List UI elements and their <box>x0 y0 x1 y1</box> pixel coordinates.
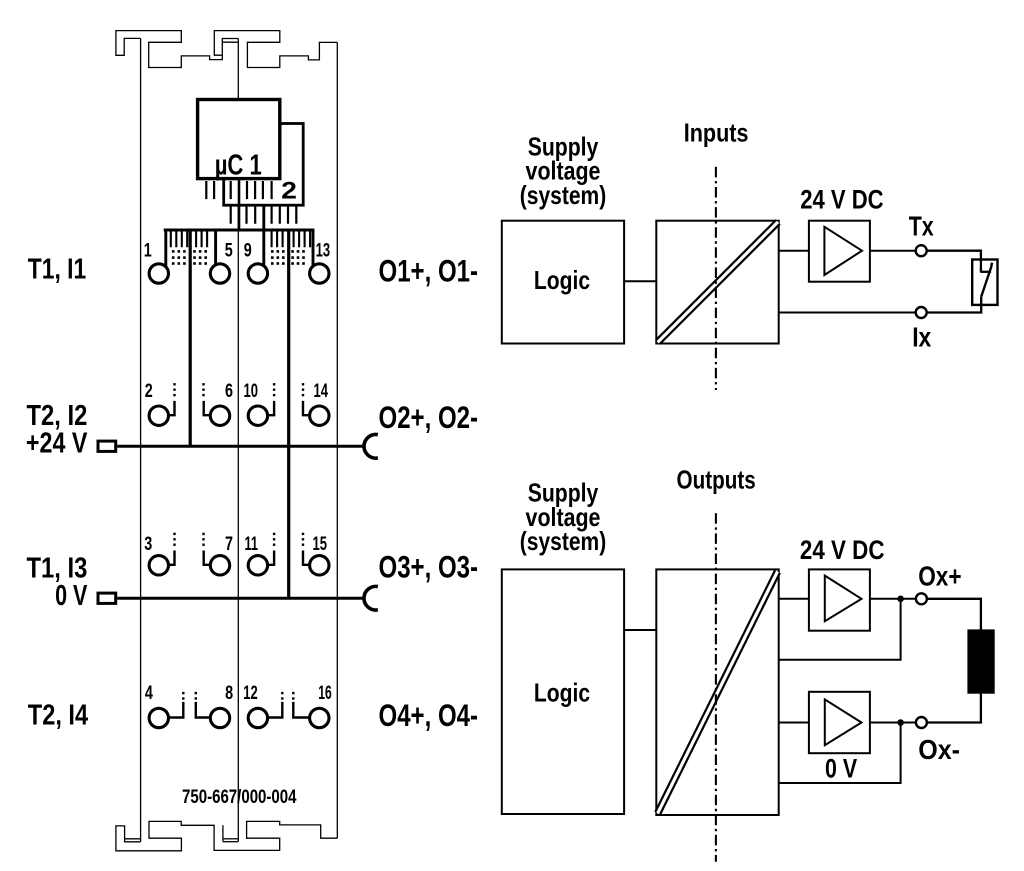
terminal 10 hook wire <box>268 401 275 415</box>
wire isolator to high-side driver <box>778 598 809 600</box>
bottom-center foot channel wall <box>222 825 224 841</box>
svg-text:O1+, O1-: O1+, O1- <box>379 253 479 289</box>
svg-text:O2+, O2-: O2+, O2- <box>379 399 479 435</box>
module left edge wire <box>140 38 142 841</box>
U1 pins row <box>206 181 271 199</box>
logic block U2 <box>502 221 624 344</box>
low-side driver block <box>809 692 870 753</box>
row3 dotted risers <box>173 533 304 546</box>
svg-text:O3+, O3-: O3+, O3- <box>379 549 479 585</box>
terminal 7 hook wire <box>204 551 210 565</box>
microcontroller U1 box <box>198 100 280 179</box>
wire Ox- feedback to isolator <box>778 723 901 784</box>
svg-text:4: 4 <box>145 682 153 704</box>
wire bus to +24V rail (thick) <box>189 230 192 446</box>
terminal 14 hook wire <box>303 401 309 415</box>
terminal 7 <box>210 556 229 575</box>
svg-text:2: 2 <box>145 380 153 402</box>
terminal 1 <box>149 264 168 283</box>
terminal 12 hook wire <box>268 702 283 718</box>
+24V rail socket arc <box>364 435 378 459</box>
svg-text:Ox-: Ox- <box>918 734 960 765</box>
terminal 15 <box>310 556 329 575</box>
terminal 4 <box>149 708 168 727</box>
IC block 2 (behind) <box>224 124 304 206</box>
terminal 2 <box>149 406 168 425</box>
svg-text:24 V DC: 24 V DC <box>800 184 883 214</box>
svg-text:2: 2 <box>281 178 297 205</box>
terminal 3 hook wire <box>168 551 174 565</box>
comb teeth group A <box>171 231 207 247</box>
isolation boundary dash-dot line (outputs) <box>715 513 717 862</box>
isolation boundary dash-dot line (inputs) <box>715 167 717 390</box>
terminal 16 hook wire <box>293 702 309 718</box>
svg-text:10: 10 <box>244 380 259 402</box>
thermistor sensor box <box>972 260 997 305</box>
svg-text:1: 1 <box>144 240 152 262</box>
wire bus drop to terminal 13 <box>312 230 315 267</box>
module right edge wire <box>336 42 338 838</box>
terminal 8 hook wire <box>196 702 210 718</box>
IC2 pins row <box>231 205 297 224</box>
row2 dotted risers <box>173 383 304 396</box>
svg-text:Logic: Logic <box>534 678 590 708</box>
svg-text:0 V: 0 V <box>55 580 87 612</box>
svg-text:16: 16 <box>318 682 332 704</box>
top-center clip channel double line <box>222 41 238 43</box>
terminal 9 <box>248 264 267 283</box>
wire low-side driver to Ox- <box>870 722 916 724</box>
junction dot Ox+ <box>897 596 904 603</box>
module top-center mounting clip outline <box>214 31 337 68</box>
wire bus drop to terminal 5 <box>214 230 217 266</box>
sensor contact bar <box>980 271 991 273</box>
sensor blade <box>981 263 992 297</box>
+24V rail wire <box>117 445 364 448</box>
comb teeth group B <box>272 231 311 247</box>
bottom-center foot channel floor <box>223 841 238 843</box>
svg-text:5: 5 <box>225 240 233 262</box>
driver amplifier triangle <box>824 227 862 275</box>
wire logic to isolator <box>624 280 656 282</box>
wire isolator to Ix <box>778 312 916 314</box>
load resistor (filled) <box>967 629 994 693</box>
wire Ox+ feedback to isolator <box>778 599 901 660</box>
terminal 4 hook wire <box>168 702 183 718</box>
high-side driver block <box>809 569 870 630</box>
svg-text:9: 9 <box>244 240 252 262</box>
galvanic isolator block (inputs) <box>656 221 778 344</box>
logic block U3 <box>502 569 624 814</box>
bottom-left foot channel double line <box>125 838 141 840</box>
svg-text:Ox+: Ox+ <box>918 560 961 591</box>
svg-text:13: 13 <box>316 240 331 262</box>
svg-text:6: 6 <box>225 380 233 402</box>
svg-text:24 V DC: 24 V DC <box>800 535 885 565</box>
svg-text:µC 1: µC 1 <box>215 150 262 182</box>
svg-text:15: 15 <box>313 533 328 555</box>
row4 dotted risers <box>182 692 294 700</box>
svg-text:(system): (system) <box>520 180 606 210</box>
wire isolator to driver <box>778 250 809 252</box>
0V rail socket arc <box>364 586 378 610</box>
terminal 11 hook wire <box>268 551 275 565</box>
comb dotted continuation dots <box>172 250 305 265</box>
wire isolator to low-side driver <box>778 722 809 724</box>
svg-text:11: 11 <box>245 533 259 555</box>
wire Ox+ to load <box>927 599 981 631</box>
svg-text:O4+, O4-: O4+, O4- <box>379 697 479 733</box>
module center separator wire <box>237 39 239 842</box>
svg-text:750-667/000-004: 750-667/000-004 <box>182 787 297 808</box>
0V power jumper contact symbol <box>98 593 116 603</box>
terminal 8 <box>210 708 229 727</box>
0V rail wire <box>117 597 364 600</box>
wire bus drop to terminal 1 <box>164 230 167 267</box>
galvanic isolator block (outputs) <box>656 569 778 815</box>
wire bus to 0V rail (thick) <box>287 230 290 598</box>
bottom-center foot channel double line <box>223 838 238 840</box>
+24V power jumper contact symbol <box>98 441 116 451</box>
terminal 2 hook wire <box>168 401 174 415</box>
node Ox- terminal circle <box>916 717 927 728</box>
terminal 14 <box>310 406 329 425</box>
svg-text:(system): (system) <box>520 526 606 556</box>
svg-text:Tx: Tx <box>909 211 934 242</box>
node Tx terminal circle <box>916 245 927 256</box>
wire driver to Ox+ <box>870 598 915 600</box>
svg-text:7: 7 <box>225 533 233 555</box>
wire sensor to Ix <box>927 297 981 313</box>
terminal 11 <box>248 556 267 575</box>
terminal 15 hook wire <box>303 551 309 565</box>
wire IC2 to input bus and terminal 9 drop <box>262 205 265 266</box>
wire logic to isolator <box>624 629 656 631</box>
module top-left mounting clip outline <box>116 31 238 68</box>
wire Tx to sensor <box>927 251 981 272</box>
svg-text:T2, I4: T2, I4 <box>28 699 88 731</box>
low-side amplifier triangle <box>825 699 862 745</box>
svg-text:3: 3 <box>144 533 152 555</box>
wire driver to Tx <box>870 250 915 252</box>
module bottom mounting foot outline <box>116 821 337 850</box>
svg-text:Inputs: Inputs <box>684 117 749 147</box>
svg-text:Ix: Ix <box>912 321 931 352</box>
svg-text:+24 V: +24 V <box>26 428 88 460</box>
terminal 5 <box>210 264 229 283</box>
svg-text:Outputs: Outputs <box>677 465 756 495</box>
node Ix terminal circle <box>916 307 927 318</box>
svg-text:Logic: Logic <box>534 265 590 295</box>
node Ox+ terminal circle <box>916 593 927 604</box>
isolator diagonal double stroke <box>658 222 778 342</box>
input comb bus wire <box>164 228 315 231</box>
svg-text:14: 14 <box>314 380 329 402</box>
wire U1 to input bus <box>238 180 241 230</box>
svg-text:12: 12 <box>243 682 258 704</box>
svg-text:T1, I1: T1, I1 <box>28 254 87 286</box>
svg-text:0 V: 0 V <box>825 754 857 784</box>
terminal 3 <box>149 556 168 575</box>
terminal 12 <box>248 708 267 727</box>
isolator diagonal double stroke <box>658 572 778 814</box>
high-side amplifier triangle <box>825 576 862 622</box>
junction dot Ox- <box>897 719 904 726</box>
svg-text:8: 8 <box>225 682 233 704</box>
terminal 13 <box>310 264 329 283</box>
wire load to Ox- <box>927 693 981 723</box>
terminal 10 <box>248 406 267 425</box>
output driver block (inputs) <box>809 221 870 282</box>
terminal 16 <box>310 708 329 727</box>
terminal 6 hook wire <box>204 401 210 415</box>
terminal 6 <box>210 406 229 425</box>
